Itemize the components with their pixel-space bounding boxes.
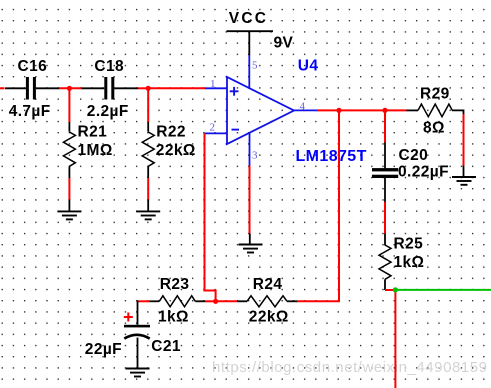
wire feedback (node C to R24) bbox=[338, 110, 340, 301]
pin 4 stub (output) bbox=[294, 109, 318, 111]
svg-text:8Ω: 8Ω bbox=[423, 119, 445, 136]
op-amp U4 bbox=[227, 77, 294, 144]
capacitor C20 bbox=[372, 143, 398, 203]
svg-text:3: 3 bbox=[252, 150, 258, 162]
ground (R29) bbox=[452, 166, 476, 185]
svg-text:C21: C21 bbox=[151, 338, 181, 355]
pin 5 stub bbox=[248, 55, 250, 89]
junction node C (output/feedback) bbox=[336, 108, 341, 113]
wire pin 3 to ground bbox=[249, 166, 251, 234]
label C21 polarity plus bbox=[124, 313, 133, 322]
wire node D to R24 bbox=[216, 300, 238, 302]
wire input (left edge) bbox=[0, 87, 5, 89]
wire C16 to node A bbox=[59, 87, 82, 89]
wire C18 to node B bbox=[138, 87, 149, 89]
wire U4 pin 2 to node D bbox=[205, 133, 216, 301]
svg-text:R23: R23 bbox=[160, 276, 190, 293]
svg-text:1MΩ: 1MΩ bbox=[78, 142, 113, 159]
svg-text:R22: R22 bbox=[156, 124, 186, 141]
svg-text:C18: C18 bbox=[94, 58, 124, 75]
svg-text:VCC: VCC bbox=[229, 10, 268, 27]
resistor R29 bbox=[407, 104, 464, 117]
svg-text:22µF: 22µF bbox=[85, 341, 122, 358]
junction node F (green) bbox=[393, 287, 398, 292]
junction node B (C18/R22/pin1) bbox=[146, 86, 151, 91]
wire R23 to C21 bbox=[138, 300, 150, 302]
svg-text:R24: R24 bbox=[253, 276, 283, 293]
wire R29 to ground bbox=[463, 114, 465, 166]
resistor R25 bbox=[379, 234, 391, 290]
resistor R24 bbox=[237, 296, 297, 307]
svg-text:4.7µF: 4.7µF bbox=[9, 103, 51, 120]
svg-text:C16: C16 bbox=[18, 58, 48, 75]
svg-text:2: 2 bbox=[210, 122, 216, 134]
resistor R23 bbox=[149, 296, 205, 307]
resistor R21 bbox=[63, 122, 75, 178]
wire R21 to ground bbox=[68, 178, 70, 200]
svg-text:R21: R21 bbox=[78, 124, 108, 141]
svg-text:4: 4 bbox=[300, 101, 306, 113]
ground (R21) bbox=[57, 200, 81, 220]
ground (C21) bbox=[126, 369, 150, 377]
wire output net bbox=[317, 109, 407, 111]
wire node B to U4 pin 1 bbox=[148, 87, 205, 89]
wire R22 to ground bbox=[147, 178, 149, 200]
svg-text:9V: 9V bbox=[274, 34, 294, 51]
capacitor C18 bbox=[82, 77, 139, 100]
junction node D (R23/R24/pin2) bbox=[213, 299, 218, 304]
svg-text:R25: R25 bbox=[394, 236, 424, 253]
pin 2 stub bbox=[205, 132, 228, 134]
svg-text:U4: U4 bbox=[298, 58, 319, 75]
capacitor C16 bbox=[5, 77, 60, 100]
wire C20 to R25 bbox=[384, 202, 386, 234]
wire node D to R23 bbox=[205, 300, 215, 302]
pin 1 stub bbox=[205, 87, 228, 89]
svg-text:22kΩ: 22kΩ bbox=[249, 309, 289, 326]
wire node F down to bottom edge bbox=[394, 290, 396, 388]
ground (R22) bbox=[136, 200, 160, 220]
wire node E to C20 bbox=[384, 110, 386, 142]
wire R24 to feedback bbox=[297, 300, 340, 302]
svg-text:R29: R29 bbox=[420, 86, 450, 103]
svg-text:1kΩ: 1kΩ bbox=[158, 309, 189, 326]
ground (pin 3) bbox=[239, 234, 263, 253]
svg-text:https://blog.csdn.net/weixin_4: https://blog.csdn.net/weixin_44908159 bbox=[212, 359, 488, 376]
svg-text:22kΩ: 22kΩ bbox=[156, 142, 196, 159]
wire node A to R21 bbox=[68, 88, 70, 122]
svg-text:1: 1 bbox=[210, 78, 216, 90]
svg-text:LM1875T: LM1875T bbox=[296, 148, 367, 165]
junction node A (C16/C18/R21) bbox=[67, 86, 72, 91]
power VCC symbol bbox=[227, 31, 274, 55]
wire R25 to node F bbox=[385, 289, 395, 291]
svg-text:C20: C20 bbox=[399, 147, 429, 164]
wire node B to R22 bbox=[147, 88, 149, 122]
svg-text:1kΩ: 1kΩ bbox=[394, 254, 425, 271]
pin 3 stub bbox=[249, 133, 251, 166]
resistor R22 bbox=[142, 122, 154, 178]
wire output to right edge (green net) bbox=[395, 289, 491, 291]
junction node E (output/C20) bbox=[382, 108, 387, 113]
svg-text:0.22µF: 0.22µF bbox=[398, 164, 449, 181]
capacitor C21 (polarized) bbox=[124, 300, 150, 368]
svg-text:5: 5 bbox=[252, 59, 258, 71]
svg-text:2.2µF: 2.2µF bbox=[87, 103, 129, 120]
